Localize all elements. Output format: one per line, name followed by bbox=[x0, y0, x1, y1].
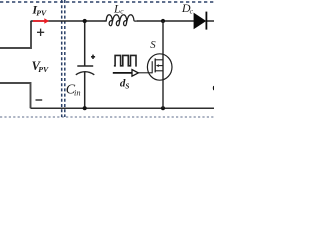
junction dot bottom-right (switch/bottom rail) bbox=[161, 106, 165, 110]
wire inductor to diode bbox=[137, 20, 195, 22]
svg-text:PV: PV bbox=[38, 65, 49, 74]
wire top rail bbox=[31, 20, 106, 22]
gate drive arrow d_S bbox=[113, 70, 139, 77]
svg-text:S: S bbox=[125, 83, 129, 91]
svg-text:c: c bbox=[190, 7, 194, 16]
wire bottom rail bbox=[31, 107, 215, 109]
MOSFET S circle bbox=[147, 54, 172, 80]
capacitor Cin branch wire upper bbox=[84, 21, 86, 66]
wire PV minus lead-in bbox=[0, 83, 31, 108]
capacitor Cin top plate bbox=[77, 65, 93, 67]
dashed boundary vertical left (PV box edge) bbox=[61, 0, 63, 117]
junction dot bottom-left (cap/bottom rail) bbox=[83, 106, 87, 110]
label minus (PV polarity) bbox=[36, 99, 43, 101]
cropped label sliver at right edge bbox=[213, 86, 214, 90]
junction dot top-right (switch/top rail) bbox=[161, 19, 165, 23]
wire diode to right edge bbox=[206, 20, 214, 22]
svg-text:S: S bbox=[150, 39, 156, 51]
svg-text:PV: PV bbox=[36, 8, 47, 17]
diode Dc bbox=[194, 12, 207, 30]
inductor Lc bbox=[105, 15, 138, 26]
capacitor Cin curved plate bbox=[76, 72, 95, 75]
dashed boundary bottom bbox=[0, 116, 214, 118]
MOSFET source link bbox=[155, 70, 163, 72]
dashed boundary top bbox=[0, 1, 214, 3]
MOSFET gate lead bbox=[138, 72, 152, 74]
MOSFET gate bar bbox=[151, 61, 153, 73]
capacitor Cin branch wire lower bbox=[84, 72, 86, 109]
label plus (PV polarity) bbox=[37, 29, 44, 36]
wire PV plus lead-in bbox=[0, 21, 31, 48]
MOSFET body arrow bbox=[156, 64, 163, 67]
switch S vertical wire (drain-source through) bbox=[162, 21, 164, 108]
MOSFET drain link bbox=[155, 59, 163, 61]
junction dot top-left (cap/top rail) bbox=[83, 19, 87, 23]
current arrow IPV (red) bbox=[33, 18, 49, 24]
capacitor plus mark bbox=[91, 55, 95, 59]
MOSFET channel bar bbox=[154, 58, 156, 72]
svg-text:in: in bbox=[74, 88, 81, 97]
PWM pulse glyph bbox=[114, 55, 137, 65]
dashed boundary vertical right (converter box edge) bbox=[64, 0, 66, 117]
